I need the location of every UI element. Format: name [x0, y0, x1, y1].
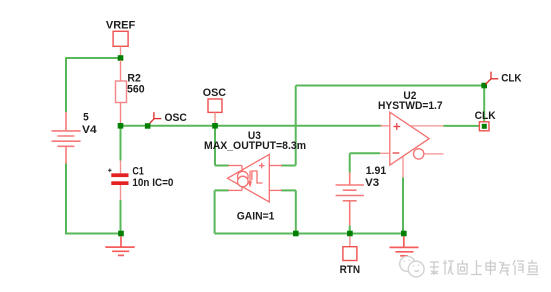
wire U2 output to CLK port	[444, 125, 480, 127]
svg-text:1.91: 1.91	[366, 165, 387, 177]
junction V3 RTN	[347, 231, 353, 237]
wire bus U3 to U2 ground	[215, 233, 404, 235]
battery V3	[336, 173, 364, 226]
svg-text:OSC: OSC	[165, 112, 187, 124]
svg-text:HYSTWD=1.7: HYSTWD=1.7	[378, 100, 443, 112]
junction OSC label	[145, 123, 151, 129]
wire main OSC line	[121, 125, 383, 127]
wire U3 lower-right horizontal	[281, 189, 296, 191]
junction C1 ground	[118, 231, 124, 237]
wire C1 top	[120, 126, 122, 161]
wire C1 bottom	[120, 200, 122, 234]
svg-text:OSC: OSC	[203, 87, 226, 99]
wire U3 input left vertical	[214, 126, 216, 166]
watermark text 积极向上电源仿真	[430, 260, 538, 275]
node label OSC	[148, 112, 161, 125]
svg-text:MAX_OUTPUT=8.3m: MAX_OUTPUT=8.3m	[204, 140, 306, 152]
wire U2 ground vertical	[402, 178, 404, 234]
wire V3 top vertical	[349, 153, 351, 172]
capacitor C1	[108, 161, 129, 201]
wire V4 bottom vertical	[65, 164, 67, 235]
op-amp U3	[228, 154, 283, 202]
svg-text:560: 560	[127, 84, 145, 96]
port CLK output	[479, 122, 489, 131]
comparator U2	[380, 112, 444, 177]
svg-text:CLK: CLK	[475, 110, 496, 122]
svg-text:GAIN=1: GAIN=1	[237, 211, 275, 223]
junction R2 bottom	[118, 123, 124, 129]
resistor R2	[116, 60, 127, 124]
port VREF	[113, 31, 128, 57]
battery V4	[52, 112, 81, 164]
svg-text:C1: C1	[132, 166, 143, 178]
svg-text:RTN: RTN	[340, 264, 361, 276]
svg-text:CLK: CLK	[501, 72, 521, 84]
wire U3 input left horizontal	[215, 165, 229, 167]
ground right	[390, 236, 419, 256]
junction U3 ground	[293, 231, 299, 237]
watermark logo	[400, 256, 424, 277]
wire U3 output vertical up	[295, 86, 297, 166]
wire V3 bottom vertical	[349, 225, 351, 233]
wire CLK port vertical	[483, 86, 485, 122]
wire U3 lower-left vertical	[214, 190, 216, 233]
ground left	[105, 236, 134, 255]
wire V4 top vertical	[65, 58, 67, 112]
port RTN	[343, 236, 357, 260]
junction CLK net	[481, 83, 487, 89]
svg-text:VREF: VREF	[106, 19, 136, 31]
junction VREF tap	[118, 55, 124, 61]
svg-text:R2: R2	[127, 72, 140, 84]
svg-text:5: 5	[83, 112, 89, 124]
port OSC	[208, 99, 222, 124]
wire V3 minus input horizontal	[350, 152, 380, 154]
wire CLK net horizontal	[296, 85, 485, 87]
wire U3 upper-right horizontal	[281, 165, 296, 167]
wire VREF horizontal to V4	[65, 57, 120, 59]
wire U3 lower-left horizontal	[215, 189, 229, 191]
wire U3 lower-right vertical	[295, 190, 297, 233]
svg-text:10n IC=0: 10n IC=0	[132, 177, 173, 189]
junction OSC port	[212, 123, 218, 129]
junction U2 ground	[401, 231, 407, 237]
node label CLK top	[486, 72, 499, 85]
svg-text:V3: V3	[365, 177, 379, 189]
wire bus left	[65, 233, 121, 235]
svg-text:V4: V4	[82, 124, 98, 136]
